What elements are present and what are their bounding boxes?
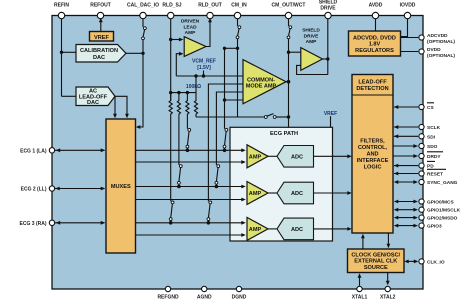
svg-text:VREF: VREF	[324, 111, 337, 117]
op-amp channel 3 AMP	[247, 217, 268, 240]
wire RLD_SJ column	[171, 16, 184, 102]
node VCM stub junction	[202, 74, 205, 77]
wire filters to clock down	[387, 233, 391, 248]
wire CS	[394, 105, 418, 109]
wire shield amp output and feedback	[297, 16, 328, 75]
op-amp channel 2 AMP	[247, 182, 268, 205]
svg-text:GPIO2/MSDO: GPIO2/MSDO	[427, 216, 458, 222]
svg-text:[1.5V]: [1.5V]	[197, 65, 211, 71]
wire AVDD supply	[375, 16, 377, 32]
wire CLK_IO	[404, 260, 418, 264]
svg-text:REFIN: REFIN	[54, 2, 69, 8]
wire VCM bias line with switch to CM output	[196, 114, 289, 119]
op-amp common-mode amp	[243, 60, 286, 104]
svg-text:100kΩ: 100kΩ	[186, 84, 201, 90]
wire calibration DAC output	[126, 52, 143, 54]
svg-text:CLK_IO: CLK_IO	[427, 259, 445, 265]
wire XTAL2	[386, 273, 390, 286]
wire DVDD output pin	[401, 51, 419, 53]
wire GPIO3	[394, 224, 418, 228]
svg-text:RESET: RESET	[427, 172, 443, 178]
svg-text:DRIVEN: DRIVEN	[181, 19, 200, 25]
wire ECG1 rail b	[136, 160, 246, 164]
svg-text:AMP: AMP	[249, 191, 262, 197]
node bias to CM column	[287, 115, 290, 118]
resistor R1	[169, 93, 172, 116]
svg-text:AMP: AMP	[306, 39, 317, 45]
wire IOVDD supply	[401, 16, 408, 37]
node rail junction b	[177, 91, 180, 94]
wire REFIN column	[62, 16, 77, 97]
pin RLD_SJ	[162, 2, 181, 18]
VREF reference box	[90, 32, 114, 42]
wire PD	[394, 164, 418, 168]
ECG PATH panel	[230, 127, 333, 241]
wire VREF to REFOUT	[99, 18, 103, 32]
svg-text:ECG PATH: ECG PATH	[270, 131, 298, 137]
svg-text:CM_OUT/WCT: CM_OUT/WCT	[272, 2, 306, 8]
node shield tap	[287, 51, 290, 54]
pin REFOUT	[90, 2, 111, 18]
svg-text:DETECTION: DETECTION	[356, 86, 388, 92]
wire ADC2 to filters	[314, 191, 352, 195]
wire resistor top rail	[171, 76, 196, 93]
pin ECG2	[21, 186, 55, 193]
node column B on ECG2 rail	[215, 185, 219, 189]
svg-text:1.8V: 1.8V	[369, 42, 381, 48]
pin AGND	[197, 286, 212, 300]
svg-text:RLD_OUT: RLD_OUT	[198, 2, 222, 8]
svg-text:IOVDD: IOVDD	[400, 2, 416, 8]
pin DGND	[232, 286, 247, 300]
driven lead amp U_DLA	[181, 19, 206, 57]
node CM_IN tie b	[223, 47, 226, 50]
wire SCLK	[394, 125, 418, 129]
wire ECG1 electrode	[55, 148, 105, 152]
node R3 on ECG1 rail	[186, 149, 190, 153]
svg-text:DRIVE: DRIVE	[320, 5, 336, 11]
resistor R3	[186, 93, 189, 116]
wire GPIO0	[394, 200, 418, 204]
main chip body	[52, 16, 423, 290]
pin XTAL1	[352, 286, 368, 300]
svg-text:ADCVDD: ADCVDD	[427, 33, 448, 39]
label VREF mid	[324, 111, 337, 128]
wire shield amp input	[289, 51, 301, 53]
wire ECG3 rail a	[136, 221, 246, 225]
pin XTAL2	[380, 286, 396, 300]
svg-text:FILTERS,: FILTERS,	[360, 139, 385, 145]
svg-text:LEAD-OFF: LEAD-OFF	[358, 80, 387, 86]
svg-text:XTAL1: XTAL1	[352, 295, 368, 301]
pin SCLK	[419, 124, 441, 131]
wire filters to clock up	[361, 234, 365, 249]
wire CM sense column A to amp	[207, 84, 243, 223]
wire R1 column switch to ECG3 rail	[169, 116, 174, 223]
wire SDO	[393, 144, 418, 148]
svg-text:(OPTIONAL): (OPTIONAL)	[427, 39, 455, 45]
wire GPIO2	[394, 216, 418, 220]
svg-text:ADC: ADC	[291, 191, 303, 197]
ADC channel 2	[268, 182, 314, 204]
wire GPIO1	[394, 208, 418, 212]
node CM output apex	[287, 80, 291, 84]
svg-text:REFOUT: REFOUT	[90, 2, 111, 8]
svg-text:DRIVE: DRIVE	[304, 33, 319, 39]
svg-text:CS: CS	[427, 105, 434, 111]
wire ECG3 rail b	[136, 233, 246, 237]
AC lead-off DAC	[76, 87, 115, 106]
svg-text:(OPTIONAL): (OPTIONAL)	[427, 53, 455, 59]
wire CM output column	[286, 16, 292, 128]
svg-text:CAL_DAC_IO: CAL_DAC_IO	[127, 2, 159, 8]
svg-text:GPIO1/MSCLK: GPIO1/MSCLK	[427, 208, 461, 214]
svg-text:PD: PD	[427, 164, 434, 170]
pin REFGND	[157, 286, 179, 300]
wire SDI	[394, 134, 418, 138]
svg-text:DAC: DAC	[87, 100, 99, 106]
pin DRDY	[419, 152, 443, 160]
svg-text:ECG 3 (RA): ECG 3 (RA)	[20, 221, 47, 227]
pin IOVDD	[400, 2, 416, 18]
svg-text:DRDY: DRDY	[427, 154, 441, 160]
pin ADCVDD optional	[419, 33, 455, 45]
calibration DAC	[76, 45, 126, 63]
node rail junction c	[186, 91, 189, 94]
svg-text:ECG 1 (LA): ECG 1 (LA)	[20, 148, 47, 154]
pin SYNC_GANG	[419, 179, 458, 186]
wire CM_IN column with switch	[225, 16, 241, 118]
pin CAL_DAC_IO	[127, 2, 159, 18]
svg-text:DGND: DGND	[232, 295, 247, 301]
pin RESET	[419, 169, 446, 177]
wire SYNC_GANG	[394, 180, 418, 184]
svg-text:SHIELD: SHIELD	[302, 28, 320, 34]
pin CM_IN	[231, 2, 247, 18]
pin DVDD optional	[419, 47, 455, 59]
node shield output	[326, 57, 329, 60]
wire R2 column switch to ECG2 rail	[178, 116, 183, 187]
svg-text:ADC: ADC	[291, 227, 303, 233]
svg-text:ECG 2 (LL): ECG 2 (LL)	[21, 187, 47, 193]
wire XTAL1	[358, 273, 362, 286]
pin CM_OUT/WCT	[272, 2, 306, 18]
pin GPIO0/MCS	[419, 199, 455, 206]
node REFIN/CALDAC junction	[60, 51, 63, 54]
svg-text:EXTERNAL CLK: EXTERNAL CLK	[354, 259, 397, 265]
op-amp channel 1 AMP	[247, 145, 268, 168]
pin SHIELD DRIVE	[319, 0, 338, 19]
svg-text:RLD_SJ: RLD_SJ	[162, 2, 181, 8]
node column C on ECG1 rail	[223, 149, 227, 153]
pin ECG3	[20, 220, 55, 227]
wire ECG1 rail a	[136, 148, 246, 152]
wire ECG2 rail b	[136, 198, 246, 202]
svg-text:MUXES: MUXES	[111, 184, 131, 190]
clock gen block	[348, 249, 405, 273]
wire ADC3 to filters	[314, 227, 352, 231]
pin GPIO1/MSCLK	[419, 207, 461, 214]
wire RESET	[394, 172, 418, 176]
svg-text:AND: AND	[366, 152, 378, 158]
svg-text:AMP: AMP	[249, 154, 262, 160]
svg-text:CM_IN: CM_IN	[231, 2, 247, 8]
wire AC DAC outputs into MUXES	[113, 96, 129, 118]
node R1 on ECG3 rail	[169, 221, 173, 225]
svg-text:INTERFACE: INTERFACE	[357, 158, 389, 164]
pin CLK_IO	[419, 259, 445, 266]
svg-text:ADC: ADC	[291, 155, 303, 161]
svg-text:GPIO3: GPIO3	[427, 224, 442, 230]
svg-text:SOURCE: SOURCE	[364, 265, 388, 271]
wire ECG3 electrode	[55, 221, 105, 225]
svg-text:LOGIC: LOGIC	[364, 165, 382, 171]
node column A on ECG3 rail	[207, 221, 211, 225]
pin GPIO3	[419, 223, 442, 230]
wire CM sense column C to amp	[223, 48, 243, 150]
pin PD	[419, 161, 435, 169]
MUXES block	[106, 119, 136, 253]
svg-text:VREF: VREF	[94, 35, 110, 41]
svg-text:AGND: AGND	[197, 295, 212, 301]
wire R3 column switch to ECG1 rail	[186, 116, 191, 151]
pin ECG1	[20, 148, 55, 155]
wire ECG2 rail a	[136, 185, 246, 189]
node VCM resistor junction	[194, 74, 197, 77]
lead-off detection / filters block	[352, 75, 393, 234]
svg-text:REGULATORS: REGULATORS	[355, 48, 394, 54]
ADC channel 1	[268, 146, 314, 168]
svg-text:DVDD: DVDD	[427, 47, 441, 53]
wire driven lead amp output to RLD_OUT	[206, 18, 212, 47]
svg-text:CLOCK GEN/OSC/: CLOCK GEN/OSC/	[351, 252, 400, 258]
svg-text:AMP: AMP	[249, 227, 262, 233]
svg-text:XTAL2: XTAL2	[380, 295, 396, 301]
wire VCM to driven lead amp input	[176, 52, 183, 76]
node CM_IN tie a	[236, 47, 239, 50]
svg-text:MODE AMP: MODE AMP	[246, 84, 277, 90]
svg-text:REFGND: REFGND	[157, 295, 179, 301]
wire CM sense column B to amp	[215, 92, 243, 187]
pin AVDD	[369, 2, 383, 18]
regulators block	[349, 31, 401, 56]
resistor R4	[194, 93, 197, 116]
svg-text:GPIO0/MCS: GPIO0/MCS	[427, 200, 454, 206]
op-amp shield drive amp	[301, 28, 323, 71]
wire ADCVDD output pin	[401, 37, 419, 39]
node RLD_SJ branch	[169, 38, 172, 41]
svg-text:SDO: SDO	[427, 144, 438, 150]
wire ECG2 electrode	[55, 187, 105, 191]
svg-text:CALIBRATION: CALIBRATION	[80, 48, 118, 54]
node rail junction a	[169, 91, 172, 94]
wire VCM rail to common-mode amp	[176, 75, 243, 77]
pin CS	[419, 103, 435, 111]
ADC channel 3	[268, 218, 314, 240]
wire DRDY	[393, 154, 418, 158]
svg-text:DAC: DAC	[93, 55, 105, 61]
pin GPIO2/MSDO	[419, 215, 458, 222]
pin REFIN	[54, 2, 69, 18]
svg-text:CONTROL,: CONTROL,	[358, 145, 388, 151]
svg-text:SYNC_GANG: SYNC_GANG	[427, 180, 458, 186]
svg-text:LEAD: LEAD	[183, 24, 197, 30]
svg-text:SCLK: SCLK	[427, 125, 441, 131]
wire ADC1 to filters	[314, 154, 352, 158]
node CAL DAC output junction	[141, 52, 144, 55]
pin SDI	[419, 134, 436, 141]
pin RLD_OUT	[198, 2, 222, 18]
svg-text:AMP: AMP	[185, 30, 196, 36]
pin SDO	[419, 143, 438, 150]
svg-text:ADCVDD, DVDD: ADCVDD, DVDD	[353, 35, 396, 41]
node column C amp tap	[223, 98, 226, 101]
wire CAL_DAC_IO column with switch	[136, 16, 147, 129]
resistor R2	[177, 93, 180, 116]
label VCM_REF	[192, 58, 216, 76]
svg-text:SDI: SDI	[427, 134, 436, 140]
node R2 on ECG2 rail	[177, 185, 181, 189]
svg-text:VCM_REF: VCM_REF	[192, 58, 216, 64]
svg-text:AVDD: AVDD	[369, 2, 383, 8]
